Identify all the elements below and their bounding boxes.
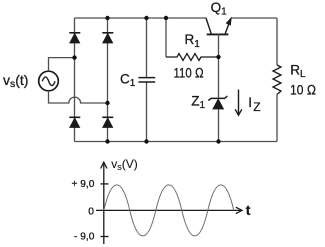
wire right leg lower	[276, 95, 278, 142]
graph x axis	[96, 207, 242, 213]
diode D4 (bottom right)	[102, 117, 113, 127]
svg-text:vs(V): vs(V)	[111, 157, 138, 172]
junction node bottom rail zener	[216, 139, 220, 143]
junction node top rail R1	[164, 16, 168, 20]
junction node bottom rail bridge	[105, 139, 109, 143]
wire top rail right section (emitter to right leg)	[231, 17, 278, 19]
zener diode Z1	[208, 96, 227, 109]
junction node source top	[72, 55, 76, 59]
svg-text:110 Ω: 110 Ω	[174, 65, 204, 81]
junction node bottom rail C1	[144, 139, 148, 143]
tick -9	[101, 236, 109, 238]
wire right leg upper	[276, 18, 278, 65]
wire source top	[49, 58, 75, 72]
svg-text:vs(t): vs(t)	[3, 72, 28, 90]
wire right bridge leg	[107, 18, 109, 142]
sine wave	[104, 185, 234, 236]
wire zener to bottom rail	[218, 109, 220, 142]
diode D1 (top left)	[69, 33, 80, 43]
current arrow IZ	[235, 90, 242, 116]
wire top rail left section	[75, 17, 207, 19]
diode D3 (bottom left)	[69, 117, 80, 127]
wire left bridge leg	[74, 18, 76, 142]
graph y axis	[101, 162, 107, 244]
junction node source bottom	[105, 101, 109, 105]
svg-text:0: 0	[88, 207, 94, 218]
svg-text:10 Ω: 10 Ω	[290, 82, 316, 98]
svg-text:+ 9,0: + 9,0	[71, 179, 94, 190]
resistor RL	[273, 65, 281, 95]
wire bottom rail	[75, 141, 278, 143]
transistor Q1	[206, 18, 231, 34]
wire source bottom with hop	[49, 91, 108, 103]
svg-text:- 9,0: - 9,0	[74, 231, 95, 242]
svg-text:t: t	[246, 202, 251, 218]
junction node top rail bridge	[105, 16, 109, 20]
junction node top rail C1	[144, 16, 148, 20]
resistor R1	[166, 18, 219, 61]
wire base to zener	[218, 35, 220, 99]
capacitor C1	[138, 18, 155, 142]
junction node R1 base	[216, 55, 220, 59]
tick +9	[101, 183, 109, 185]
voltage source vs	[39, 71, 59, 91]
diode D2 (top right)	[102, 33, 113, 43]
